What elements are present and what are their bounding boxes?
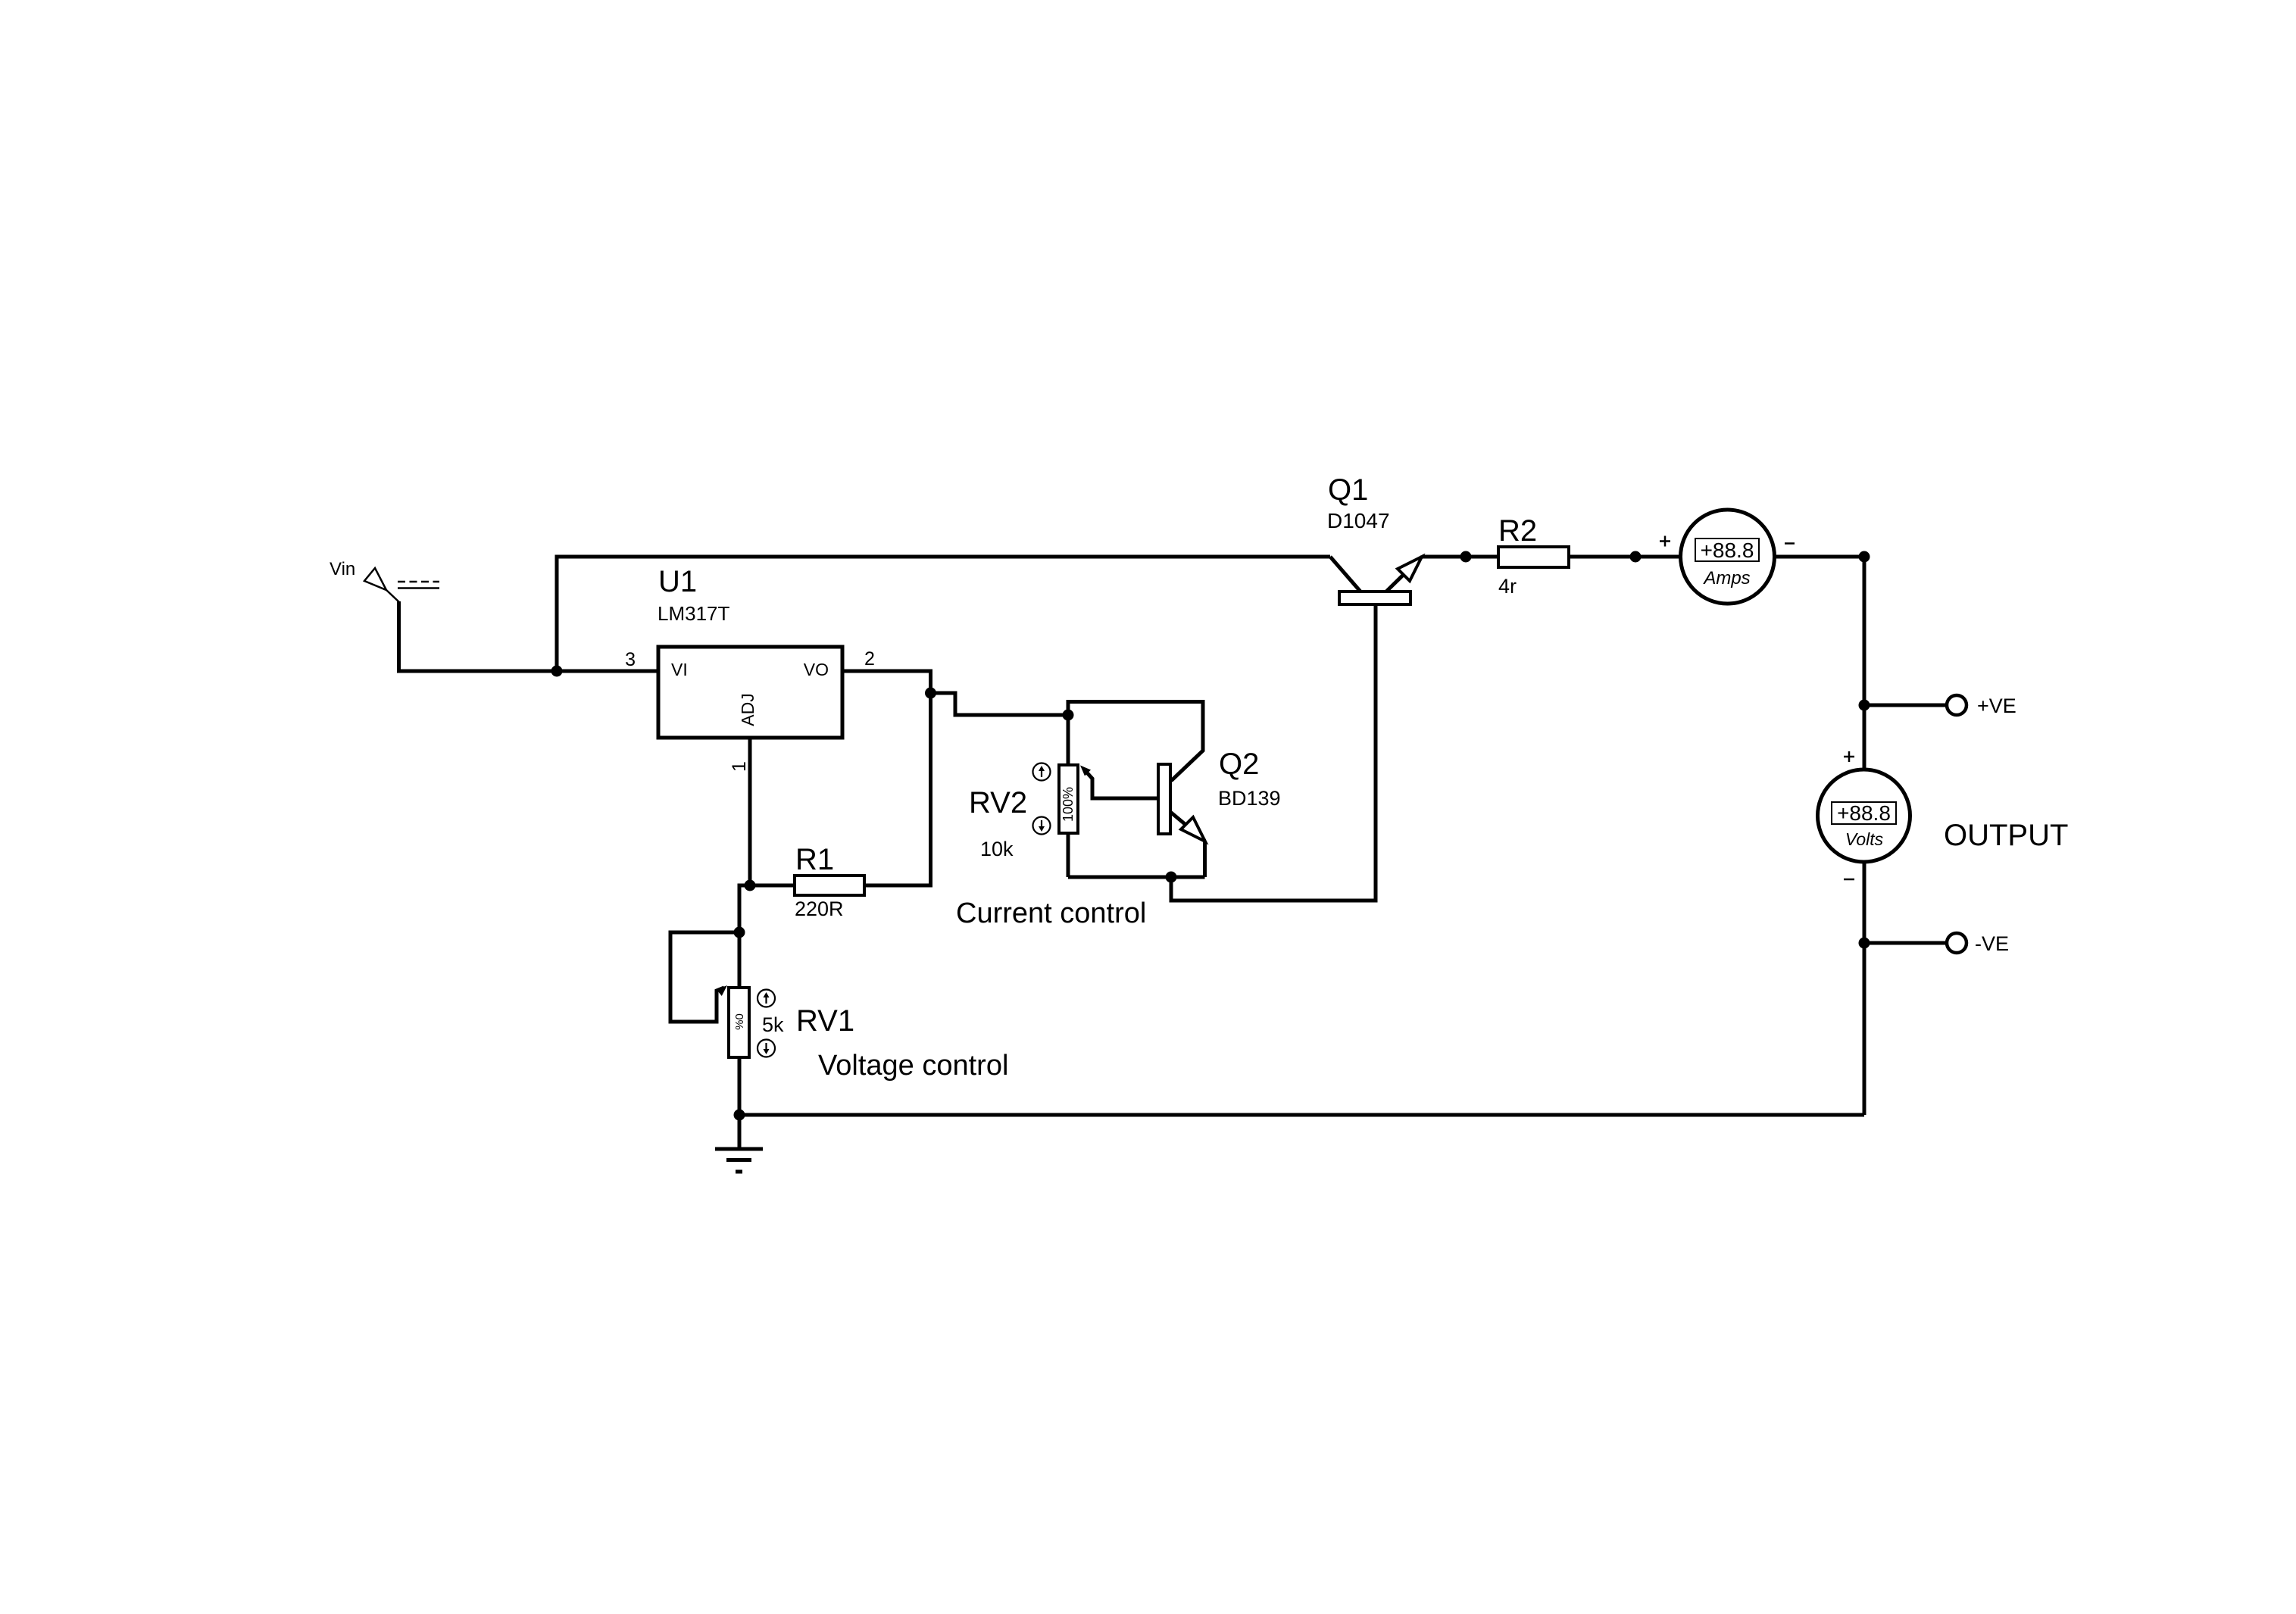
svg-text:Vin: Vin [330, 559, 355, 579]
transistor Q2 base bar [1158, 764, 1170, 834]
svg-text:OUTPUT: OUTPUT [1944, 819, 2068, 852]
wire voltmeter to bottom rail [1863, 862, 1866, 1115]
RV1 down adjust symbol [758, 1040, 775, 1057]
ammeter body [1681, 510, 1775, 604]
svg-text:5k: 5k [762, 1013, 784, 1036]
svg-text:Amps: Amps [1702, 568, 1750, 588]
svg-text:Volts: Volts [1845, 829, 1884, 849]
svg-text:10k: 10k [980, 838, 1014, 860]
wire RV2 bottom lead [1067, 833, 1070, 877]
ammeter minus sign [1785, 542, 1795, 545]
wire RV1 top lead [738, 932, 742, 988]
node R2 left junction [1460, 551, 1472, 563]
svg-text:Current control: Current control [956, 898, 1146, 929]
potentiometer RV2 body [1059, 765, 1078, 833]
transistor Q1 base bar [1339, 592, 1410, 604]
ground symbol [715, 1149, 763, 1172]
RV2 wiper arrowhead [1080, 766, 1091, 776]
voltmeter minus sign [1844, 879, 1854, 881]
wire U1 ADJ down [748, 738, 752, 885]
svg-text:RV2: RV2 [969, 786, 1027, 819]
svg-text:1: 1 [729, 761, 750, 772]
svg-text:+88.8: +88.8 [1837, 801, 1891, 825]
svg-text:RV1: RV1 [796, 1004, 854, 1038]
wire ADJ node to R1 [750, 884, 795, 888]
Q1 emitter [1386, 557, 1422, 592]
svg-text:-VE: -VE [1975, 932, 2009, 955]
svg-text:100%: 100% [1061, 787, 1076, 822]
svg-text:R2: R2 [1498, 514, 1537, 548]
RV1 wiper arrowhead [717, 985, 727, 996]
svg-text:+88.8: +88.8 [1701, 539, 1754, 562]
wire RV2 bottom to Q2 emitter [1068, 876, 1205, 879]
wire RV1 wiper loop [670, 932, 739, 1022]
RV2 up adjust symbol [1033, 763, 1051, 781]
node input junction [551, 666, 563, 677]
Q1 emitter arrowhead [1398, 557, 1422, 581]
regulator U1 body [658, 647, 842, 738]
svg-text:Q2: Q2 [1219, 748, 1259, 781]
Q2 emitter arrowhead [1181, 817, 1205, 841]
Q2 emitter [1170, 812, 1205, 841]
node ground junction [734, 1110, 745, 1121]
wire RV2 top lead [1067, 715, 1070, 765]
wire ground stem [738, 1115, 742, 1149]
wire to +VE terminal [1864, 704, 1947, 707]
RV2 down adjust symbol [1033, 817, 1051, 835]
node VO junction [925, 688, 936, 699]
svg-text:4r: 4r [1498, 575, 1517, 598]
voltmeter display box [1832, 802, 1896, 824]
voltmeter body [1818, 770, 1910, 862]
resistor R2 [1498, 547, 1569, 567]
wire node up to top rail [555, 555, 559, 672]
svg-text:Q1: Q1 [1328, 473, 1368, 507]
svg-text:2: 2 [864, 648, 875, 670]
svg-text:ADJ: ADJ [738, 693, 758, 726]
wire right rail down to voltmeter [1863, 557, 1866, 770]
svg-text:R1: R1 [795, 843, 834, 876]
wire to -VE terminal [1864, 941, 1947, 945]
wire node to U1 pin 3 [557, 670, 658, 673]
ammeter plus sign [1660, 536, 1670, 547]
wire VO node to RV2 top [931, 693, 1069, 715]
wire ammeter to right rail [1775, 555, 1865, 559]
wire RV1 bottom lead [738, 1057, 742, 1115]
wire Q2 emitter down [1203, 841, 1207, 877]
DC source marks [398, 582, 439, 588]
node Q2 emitter junction [1166, 872, 1177, 883]
wire bottom rail [739, 1113, 1864, 1117]
node +VE junction [1859, 700, 1870, 711]
node ammeter junction [1630, 551, 1642, 563]
svg-text:VO: VO [804, 660, 829, 679]
node RV2 top junction [1063, 710, 1074, 721]
ammeter display box [1695, 539, 1759, 561]
wire Q2 emitter to Q1 base [1171, 604, 1376, 901]
voltmeter plus sign [1844, 751, 1854, 762]
terminal +VE [1947, 695, 1966, 715]
svg-text:D1047: D1047 [1327, 509, 1390, 532]
svg-text:Voltage control: Voltage control [818, 1050, 1008, 1082]
svg-text:%0: %0 [733, 1013, 746, 1030]
RV2 wiper wire from Q2 base [1085, 770, 1158, 798]
svg-text:U1: U1 [658, 565, 697, 598]
wire ADJ node jog down to RV1 [739, 885, 750, 932]
wire Vin input to node [399, 601, 558, 671]
wire R2 to ammeter [1569, 555, 1681, 559]
svg-text:BD139: BD139 [1218, 787, 1281, 810]
terminal -VE [1947, 933, 1966, 953]
wire VO node down to R1 [864, 693, 931, 885]
input connector Vin [364, 568, 399, 602]
node -VE junction [1859, 938, 1870, 949]
potentiometer RV1 body [729, 988, 749, 1057]
wire top rail to Q1 collector [555, 555, 1331, 559]
svg-text:3: 3 [625, 649, 636, 670]
svg-text:+VE: +VE [1977, 695, 2016, 717]
wire U1 VO to node [842, 671, 931, 693]
svg-text:220R: 220R [795, 898, 844, 920]
wire Q1 emitter to R2 [1422, 555, 1498, 559]
svg-text:VI: VI [671, 660, 688, 679]
RV1 up adjust symbol [758, 990, 775, 1007]
resistor R1 [795, 876, 864, 895]
node ADJ junction [745, 880, 756, 891]
node right rail top corner [1859, 551, 1870, 563]
svg-text:LM317T: LM317T [658, 602, 729, 625]
transistor Q1 collector [1330, 557, 1360, 592]
wire node to Q2 collector [1068, 702, 1203, 782]
node RV1 top junction [734, 927, 745, 938]
